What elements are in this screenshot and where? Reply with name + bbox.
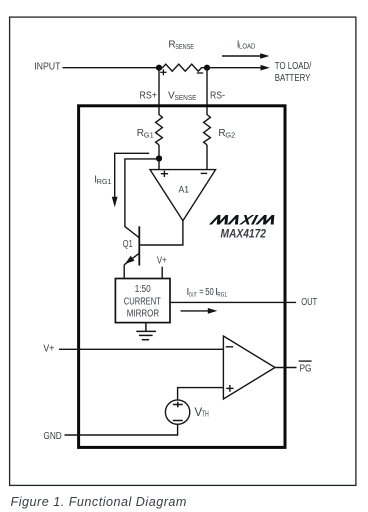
svg-text:MAX4172: MAX4172 bbox=[221, 227, 267, 241]
wire RG2 to A1 inverting input bbox=[206, 145, 208, 170]
svg-text:LOAD: LOAD bbox=[239, 43, 255, 50]
node RS- junction bbox=[204, 65, 210, 71]
ground bbox=[136, 323, 156, 340]
wire VTH to comparator noninverting input bbox=[178, 388, 224, 400]
arrowhead to load bbox=[261, 65, 270, 71]
svg-text:=: = bbox=[199, 287, 204, 298]
svg-text:G2: G2 bbox=[225, 130, 235, 139]
op-amp A1 bbox=[150, 170, 216, 221]
svg-text:V+: V+ bbox=[43, 344, 54, 355]
svg-text:RS-: RS- bbox=[210, 90, 225, 101]
polarity + at RS+ bbox=[160, 69, 166, 75]
comparator minus mark bbox=[226, 346, 233, 348]
svg-text:SENSE: SENSE bbox=[175, 95, 197, 102]
comparator bbox=[223, 336, 275, 399]
wire A1 output to Q1 base bbox=[139, 221, 183, 245]
wire V+ to comparator inverting input bbox=[59, 348, 223, 350]
wire RS+ sense line bbox=[158, 68, 160, 115]
svg-text:BATTERY: BATTERY bbox=[275, 73, 311, 84]
current annotation arrow ILOAD bbox=[222, 55, 261, 57]
svg-text:TO LOAD/: TO LOAD/ bbox=[275, 61, 312, 72]
svg-text:A1: A1 bbox=[179, 185, 190, 196]
wire node to Q1 collector bbox=[125, 159, 159, 238]
svg-text:INPUT: INPUT bbox=[34, 62, 60, 73]
resistor RSENSE bbox=[159, 64, 207, 71]
svg-text:50: 50 bbox=[205, 287, 214, 298]
transistor Q1 emitter bbox=[124, 253, 139, 265]
comparator plus mark bbox=[226, 385, 233, 392]
svg-text:Q1: Q1 bbox=[123, 239, 133, 250]
svg-text:RS+: RS+ bbox=[140, 90, 158, 101]
current mirror box bbox=[115, 279, 170, 323]
wire VTH to GND bbox=[65, 424, 178, 435]
transistor Q1 base bar bbox=[138, 226, 140, 265]
polarity - at RS- bbox=[197, 72, 203, 74]
op-amp A1 minus input mark bbox=[201, 172, 208, 174]
wire comparator output to PG bbox=[275, 367, 297, 369]
wire V+ to current mirror bbox=[161, 267, 163, 279]
voltage source VTH bbox=[165, 400, 189, 424]
svg-text:TH: TH bbox=[202, 409, 209, 418]
current annotation arrow IOUT bbox=[181, 310, 208, 312]
wire RS- sense line bbox=[206, 68, 208, 115]
node RG1/A1 junction bbox=[156, 155, 162, 161]
svg-text:1:50: 1:50 bbox=[135, 284, 151, 295]
wire mirror to OUT bbox=[170, 301, 296, 303]
svg-text:OUT: OUT bbox=[189, 292, 197, 299]
current annotation arrow IRG1 bbox=[115, 153, 150, 198]
MAXIM logo bbox=[209, 215, 278, 225]
wire RS- node to load bbox=[207, 67, 262, 69]
svg-text:V+: V+ bbox=[157, 256, 167, 267]
resistor RG1 bbox=[156, 115, 163, 145]
wire INPUT to RS+ node bbox=[63, 67, 160, 69]
op-amp A1 plus input mark bbox=[161, 171, 168, 177]
wire Q1 emitter to current mirror bbox=[123, 265, 125, 279]
svg-text:PG: PG bbox=[300, 363, 312, 374]
resistor RG2 bbox=[204, 115, 211, 145]
svg-text:G1: G1 bbox=[144, 130, 154, 139]
svg-text:OUT: OUT bbox=[301, 297, 317, 308]
wire RG1 to A1 noninverting input bbox=[158, 145, 160, 170]
svg-text:RG1: RG1 bbox=[217, 292, 227, 299]
svg-text:RG1: RG1 bbox=[97, 179, 112, 186]
svg-text:SENSE: SENSE bbox=[175, 44, 194, 51]
node RS+ junction bbox=[156, 65, 162, 71]
svg-text:Figure 1. Functional Diagram: Figure 1. Functional Diagram bbox=[11, 495, 187, 509]
IC package box MAX4172 bbox=[79, 106, 285, 448]
svg-text:GND: GND bbox=[43, 431, 61, 442]
svg-text:CURRENT: CURRENT bbox=[124, 297, 161, 308]
VTH plus mark bbox=[173, 402, 183, 408]
svg-text:MIRROR: MIRROR bbox=[127, 308, 159, 319]
VTH minus mark bbox=[173, 420, 183, 422]
